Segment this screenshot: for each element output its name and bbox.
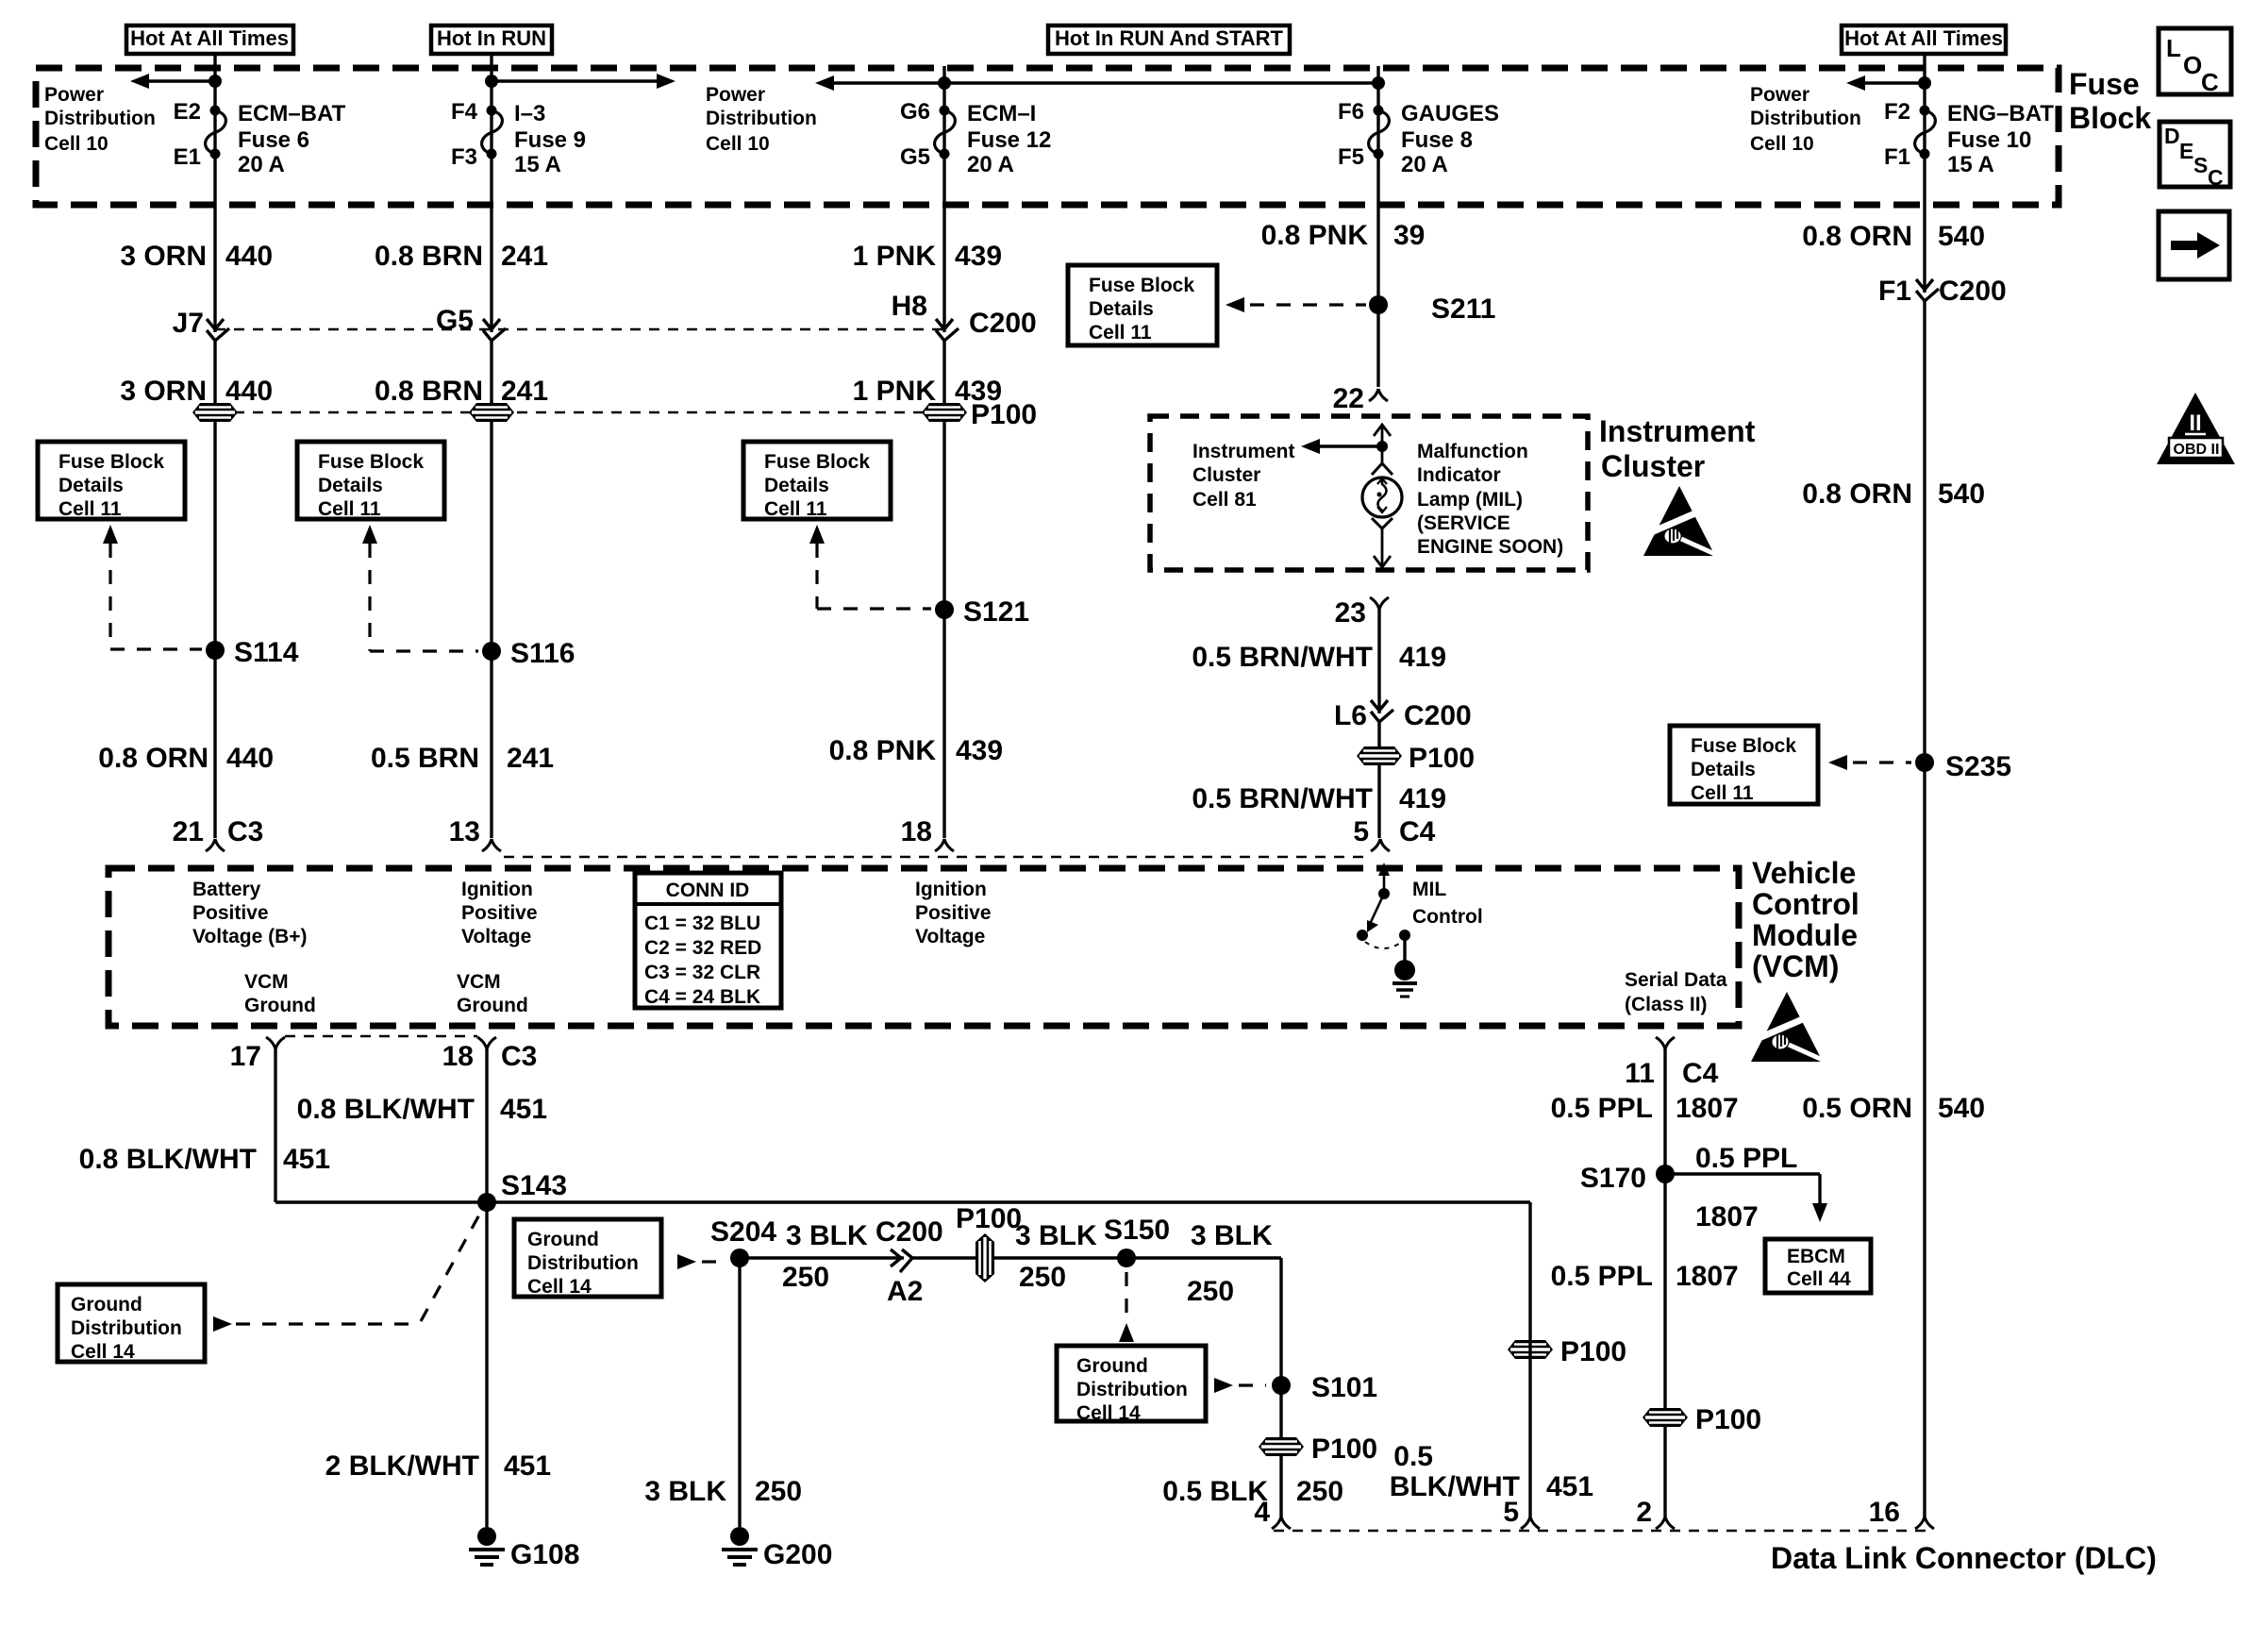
svg-text:C4 = 24 BLK: C4 = 24 BLK [644,986,760,1008]
svg-text:Positive: Positive [915,902,992,924]
svg-text:Details: Details [318,475,383,496]
svg-text:G200: G200 [763,1539,832,1570]
svg-text:540: 540 [1938,478,1985,510]
svg-text:3 ORN: 3 ORN [120,241,207,272]
Fuse Block Details Cell 11 box (mid-left) [297,442,444,520]
svg-text:Module: Module [1752,918,1858,952]
svg-text:VCM: VCM [244,971,289,993]
P100 on serial wire [1643,1404,1761,1435]
svg-text:0.8 BRN: 0.8 BRN [375,376,483,407]
DLC pin 4 [1254,1497,1291,1529]
dashed arrow box to S101 [1214,1378,1233,1393]
DLC pin 16 [1869,1497,1934,1529]
svg-text:0.8 PNK: 0.8 PNK [829,735,937,766]
Ground Distribution Cell 14 box right [1057,1346,1206,1424]
splice S121 [935,596,1029,628]
svg-text:O: O [2183,51,2202,79]
arrow to Power Distribution (left) [149,79,215,82]
Ignition Positive Voltage text (left) [461,879,538,947]
svg-text:Malfunction: Malfunction [1417,441,1528,462]
svg-text:VCM: VCM [457,971,501,993]
pin 17 [230,1037,285,1072]
Ground Distribution Cell 14 box mid [514,1219,661,1298]
svg-text:Distribution: Distribution [71,1317,182,1339]
svg-text:1 PNK: 1 PNK [853,376,937,407]
svg-text:540: 540 [1938,1093,1985,1124]
wire W4 lower (23 to C4) [1377,610,1380,838]
fuse GAUGES Fuse 8 20A [1338,99,1499,177]
P100 on W3 [922,403,967,422]
svg-text:Fuse: Fuse [2069,67,2140,101]
fuse ECM-I Fuse 12 20A [900,99,1051,177]
MIL Control switch [1357,863,1417,997]
svg-text:ENGINE SOON): ENGINE SOON) [1417,536,1563,558]
svg-text:15 A: 15 A [1947,152,1994,177]
svg-text:Cell 10: Cell 10 [1750,133,1814,155]
svg-text:Distribution: Distribution [1076,1379,1188,1400]
splice S235 [1915,751,2011,782]
MIL lamp circle [1362,478,1402,517]
wire label 0.8 BLK/WHT 451 (pin17) [79,1144,330,1175]
svg-text:Positive: Positive [192,902,269,924]
svg-text:ENG–BAT: ENG–BAT [1947,101,2054,126]
wire label 0.8 PNK 39 (W4) [1261,220,1426,251]
Ground Distribution Cell 14 box left [58,1284,205,1363]
svg-text:S: S [2193,153,2208,177]
svg-text:D: D [2164,124,2180,148]
CONN ID box [635,873,781,1008]
wire S143 run down to DLC pin 5 [1528,1202,1531,1517]
wire label 0.8 BRN 241 (row1 W2) [375,241,548,272]
wire W2 I-3 vertical [490,54,492,838]
svg-text:250: 250 [1019,1262,1066,1293]
svg-text:Fuse 10: Fuse 10 [1947,127,2031,153]
svg-text:Fuse Block: Fuse Block [318,451,424,473]
svg-text:451: 451 [1546,1471,1593,1502]
svg-text:Voltage: Voltage [461,926,531,947]
splice S143 [477,1170,567,1212]
svg-text:18: 18 [901,816,932,847]
wire label 0.5 PPL 1807 (branch) [1695,1143,1797,1232]
svg-text:250: 250 [1187,1276,1234,1307]
P100 on W2 [469,403,514,422]
svg-text:Distribution: Distribution [706,108,817,129]
svg-text:(Class II): (Class II) [1625,994,1708,1015]
Fuse Block Details Cell 11 box (mid) [743,442,891,520]
DLC pin 2 [1636,1497,1675,1529]
pin 11 C4 [1625,1037,1718,1089]
C200 connector dashed line [215,328,944,330]
fuse ENG-BAT Fuse 10 15A [1884,99,2054,177]
arrow from W2 to Power Distribution (middle) [492,79,660,82]
svg-text:Details: Details [58,475,124,496]
svg-text:G108: G108 [510,1539,579,1570]
svg-text:Voltage: Voltage [915,926,985,947]
splice S170 [1580,1163,1675,1194]
svg-text:1807: 1807 [1695,1201,1759,1232]
wire label 0.5 PPL 1807 (lower) [1551,1261,1739,1292]
svg-text:Hot In RUN And START: Hot In RUN And START [1055,26,1284,50]
svg-text:C200: C200 [969,308,1037,339]
wire label 3 ORN 440 (row1 W1) [120,241,273,272]
svg-text:Indicator: Indicator [1417,464,1501,486]
wire label 0.5 BLK/WHT 451 (pin5) [1390,1441,1593,1502]
splice S116 [482,638,575,669]
svg-text:419: 419 [1399,783,1446,814]
header box Hot At All Times (right) [1842,25,2006,54]
svg-text:Ground: Ground [244,995,316,1016]
chevron below lamp [1372,518,1392,528]
svg-text:Battery: Battery [192,879,261,900]
svg-text:C2 = 32 RED: C2 = 32 RED [644,937,761,959]
svg-text:451: 451 [500,1094,547,1125]
svg-text:Details: Details [764,475,829,496]
svg-text:E: E [2179,139,2193,163]
wire label 0.5 BLK 250 [1162,1476,1343,1507]
svg-text:C200: C200 [1404,700,1472,731]
Power Distribution Cell 10 text (left) [44,84,156,155]
svg-text:S170: S170 [1580,1163,1646,1194]
svg-text:S114: S114 [234,637,299,668]
svg-text:Hot In RUN: Hot In RUN [437,26,546,50]
svg-text:Cell 10: Cell 10 [44,133,108,155]
svg-text:440: 440 [225,376,273,407]
splice S204 [710,1216,776,1267]
svg-text:F2: F2 [1884,99,1910,125]
svg-text:S101: S101 [1311,1372,1377,1403]
svg-text:440: 440 [226,743,274,774]
wire label 1 PNK 439 (row1 W3) [853,241,1002,272]
splice S150 [1104,1215,1170,1267]
svg-text:1 PNK: 1 PNK [853,241,937,272]
svg-text:1807: 1807 [1676,1093,1739,1124]
svg-text:Power: Power [1750,84,1809,106]
svg-text:Ground: Ground [457,995,528,1016]
wire label 1 PNK 439 (row2 W3) [853,376,1002,407]
wire label 0.8 BRN 241 (row2 W2) [375,376,548,407]
svg-text:2 BLK/WHT: 2 BLK/WHT [325,1450,479,1482]
svg-text:BLK/WHT: BLK/WHT [1390,1471,1520,1502]
svg-text:16: 16 [1869,1497,1900,1528]
svg-text:G5: G5 [900,144,930,170]
svg-text:P100: P100 [971,399,1037,430]
ESD symbol (VCM) [1751,992,1823,1062]
wire label 0.5 PPL 1807 (upper) [1551,1093,1739,1124]
wire label 3 ORN 440 (row2 W1) [120,376,273,407]
svg-text:250: 250 [1296,1476,1343,1507]
Fuse Block section label [2069,67,2151,135]
chevron above lamp [1372,463,1392,475]
svg-text:S211: S211 [1431,293,1495,325]
svg-text:Cell 14: Cell 14 [527,1276,592,1298]
arrow from W5 to Power Distribution (right) [1865,81,1925,84]
svg-text:Cluster: Cluster [1192,464,1260,486]
pin 18 C3 [442,1037,538,1072]
svg-text:Control: Control [1412,906,1483,928]
P100 pass-through dashed line [215,411,944,413]
splice S114 [206,637,299,668]
svg-text:L6: L6 [1334,700,1367,731]
arrow to Instrument text [1319,444,1382,447]
svg-text:440: 440 [225,241,273,272]
P100 on W4 [1357,743,1475,774]
svg-text:17: 17 [230,1041,261,1072]
svg-text:540: 540 [1938,221,1985,252]
connector F1 C200 (W5) [1878,276,2007,307]
svg-text:0.8 ORN: 0.8 ORN [98,743,208,774]
svg-text:Cell 14: Cell 14 [71,1341,135,1363]
wire from pin 18 to G108 [485,1049,488,1527]
svg-text:A2: A2 [887,1276,923,1307]
svg-text:Ignition: Ignition [461,879,533,900]
wire label 0.5 ORN 540 (W5 low) [1802,1093,1985,1124]
svg-text:EBCM: EBCM [1787,1246,1845,1267]
wire label 0.5 BRN/WHT 419 (lower) [1192,783,1446,814]
svg-text:Fuse Block: Fuse Block [1089,275,1194,296]
svg-text:F1: F1 [1884,144,1910,170]
dashed link box2 to S116 [362,525,377,544]
svg-text:Cell 44: Cell 44 [1787,1268,1851,1290]
svg-text:E2: E2 [174,99,201,125]
Fuse Block Details Cell 11 box (left) [38,442,185,520]
Ignition Positive Voltage text (right) [915,879,992,947]
wire label 3 BLK 250 (G200) [644,1476,802,1507]
DLC dashed connector line [1274,1530,1932,1532]
svg-text:Fuse 6: Fuse 6 [238,127,309,153]
dashed link box1 to S114 [103,525,118,544]
wire label 0.5 BRN 241 (W2) [371,743,554,774]
svg-text:0.5 ORN: 0.5 ORN [1802,1093,1912,1124]
svg-text:G5: G5 [436,305,474,336]
svg-text:439: 439 [955,241,1002,272]
svg-text:Ground: Ground [71,1294,142,1316]
svg-text:4: 4 [1254,1497,1270,1528]
legend OBD II triangle [2157,393,2235,464]
header box Hot At All Times (left) [126,25,293,54]
svg-text:39: 39 [1393,220,1425,251]
header box Hot In RUN [431,25,552,54]
wire to bottom of IC box [1381,528,1384,567]
svg-text:Cluster: Cluster [1601,449,1705,483]
svg-text:5: 5 [1353,816,1369,847]
svg-text:F3: F3 [451,144,477,170]
svg-text:Fuse Block: Fuse Block [58,451,164,473]
wire label 3 BLK 250 (seg3) [1187,1220,1273,1307]
svg-text:Hot At All Times: Hot At All Times [130,26,289,50]
MIL lamp wire (inside IC) [1381,425,1384,462]
arrow from W4 across W3 (points left) [834,81,1378,84]
svg-text:0.5 BRN/WHT: 0.5 BRN/WHT [1192,642,1373,673]
svg-text:CONN ID: CONN ID [666,880,750,901]
wire W3 ECM-I vertical [942,66,945,838]
svg-text:F5: F5 [1338,144,1364,170]
connector G5 C200 [436,305,506,341]
svg-text:0.8 ORN: 0.8 ORN [1802,478,1912,510]
svg-text:241: 241 [501,376,548,407]
svg-text:Cell 11: Cell 11 [318,498,381,520]
splice S211 [1369,293,1495,325]
Power Distribution Cell 10 text (right) [1750,84,1861,155]
svg-text:ECM–BAT: ECM–BAT [238,101,346,126]
ground row wire [740,1256,1281,1259]
svg-text:439: 439 [956,735,1003,766]
pin 21 C3 [173,816,264,851]
svg-text:3 BLK: 3 BLK [644,1476,726,1507]
svg-text:Data Link Connector (DLC): Data Link Connector (DLC) [1771,1541,2157,1575]
C3 pin dashed link [504,856,1368,858]
svg-text:Cell 11: Cell 11 [1089,322,1152,344]
svg-text:Instrument: Instrument [1599,414,1756,448]
svg-text:3 ORN: 3 ORN [120,376,207,407]
svg-text:3 BLK: 3 BLK [1191,1220,1273,1251]
wire label 0.8 ORN 440 (W1) [98,743,274,774]
svg-text:Power: Power [706,84,765,106]
svg-text:P100: P100 [956,1203,1022,1234]
wire label 0.8 PNK 439 (W3) [829,735,1003,766]
svg-text:F6: F6 [1338,99,1364,125]
EBCM Cell 44 box [1765,1239,1871,1293]
svg-text:C4: C4 [1682,1058,1719,1089]
svg-text:18: 18 [442,1041,474,1072]
svg-text:250: 250 [782,1262,829,1293]
svg-text:MIL: MIL [1412,879,1446,900]
svg-text:Lamp (MIL): Lamp (MIL) [1417,489,1523,511]
svg-text:C: C [2208,165,2224,190]
pin 5 C4 [1353,816,1435,851]
svg-text:451: 451 [283,1144,330,1175]
svg-text:Cell 10: Cell 10 [706,133,770,155]
serial data wire [1663,1049,1666,1517]
Vehicle Control Module dashed box [108,868,1739,1026]
connector L6 C200 [1334,700,1472,731]
svg-text:241: 241 [507,743,554,774]
svg-text:Distribution: Distribution [527,1252,639,1274]
svg-text:P100: P100 [1409,743,1475,774]
fuse block dashed outline [36,68,2059,205]
svg-text:11: 11 [1625,1058,1655,1089]
svg-text:ECM–I: ECM–I [967,101,1036,126]
svg-text:Vehicle: Vehicle [1752,856,1856,890]
svg-text:OBD II: OBD II [2174,442,2220,458]
svg-text:(VCM): (VCM) [1752,949,1839,983]
pin 18 [901,816,954,851]
svg-text:250: 250 [755,1476,802,1507]
ESD symbol (instrument cluster) [1643,486,1715,556]
svg-text:Ignition: Ignition [915,879,987,900]
svg-text:Fuse 12: Fuse 12 [967,127,1051,153]
svg-text:1807: 1807 [1676,1261,1739,1292]
svg-text:I–3: I–3 [514,101,545,126]
svg-text:F1: F1 [1878,276,1911,307]
svg-text:Cell 11: Cell 11 [764,498,827,520]
svg-text:3 BLK: 3 BLK [1015,1220,1097,1251]
wire W5 ENG-BAT vertical [1923,54,1926,1517]
Instrument Cluster Cell 81 text [1192,441,1295,511]
svg-text:P100: P100 [1311,1433,1377,1465]
svg-text:P100: P100 [1560,1336,1626,1367]
connector J7 C200 [173,308,229,341]
svg-text:S143: S143 [501,1170,567,1201]
svg-text:Control: Control [1752,887,1859,921]
svg-text:Positive: Positive [461,902,538,924]
wire label 0.8 ORN 540 (W5 mid) [1802,478,1985,510]
svg-text:C200: C200 [876,1216,943,1248]
legend DESC box [2160,122,2230,190]
svg-text:2: 2 [1636,1497,1652,1528]
svg-text:Cell 81: Cell 81 [1192,489,1257,511]
wire S150 corner to DLC pin 4 [1279,1258,1282,1517]
svg-text:S121: S121 [963,596,1029,628]
Fuse Block Details box S211 [1068,265,1217,345]
svg-text:21: 21 [173,816,204,847]
Serial Data text [1625,969,1727,1015]
svg-text:5: 5 [1503,1497,1519,1528]
VCM Ground text (left) [244,971,316,1016]
svg-text:E1: E1 [174,144,201,170]
MIL Control text [1412,879,1483,928]
svg-text:S116: S116 [510,638,575,669]
svg-text:20 A: 20 A [967,152,1014,177]
svg-text:Serial Data: Serial Data [1625,969,1727,991]
dashed arrow S235 to box [1828,755,1847,770]
svg-text:0.8 PNK: 0.8 PNK [1261,220,1369,251]
pin 23 [1335,597,1389,629]
svg-text:Fuse 8: Fuse 8 [1401,127,1473,153]
svg-text:0.5: 0.5 [1393,1441,1433,1472]
wire label 0.8 BLK/WHT 451 (pin18) [297,1094,547,1125]
svg-text:20 A: 20 A [1401,152,1448,177]
svg-text:Instrument: Instrument [1192,441,1295,462]
svg-text:G6: G6 [900,99,930,125]
Instrument Cluster dashed box [1150,416,1588,570]
svg-text:C3 = 32 CLR: C3 = 32 CLR [644,962,760,983]
svg-text:C: C [2201,68,2219,96]
svg-text:J7: J7 [173,308,204,339]
svg-text:Details: Details [1089,298,1154,320]
Power Distribution Cell 10 text (middle) [706,84,817,155]
svg-text:0.8 BLK/WHT: 0.8 BLK/WHT [79,1144,257,1175]
svg-text:Cell 11: Cell 11 [1691,782,1754,804]
svg-text:Block: Block [2069,101,2151,135]
svg-text:Fuse 9: Fuse 9 [514,127,586,153]
dashed link S150 to Ground Distribution box [1125,1272,1127,1319]
wire label 0.8 ORN 540 (W5 upper) [1802,221,1985,252]
svg-text:241: 241 [501,241,548,272]
svg-text:0.5 BRN: 0.5 BRN [371,743,479,774]
svg-text:H8: H8 [892,291,927,322]
svg-text:Cell 14: Cell 14 [1076,1402,1141,1424]
svg-text:S235: S235 [1945,751,2011,782]
wire S204 to G200 [738,1258,741,1527]
svg-text:0.5 PPL: 0.5 PPL [1695,1143,1797,1174]
VCM Ground text (right) [457,971,528,1016]
svg-text:Distribution: Distribution [44,108,156,129]
P100 on W1 [192,403,238,422]
P100 on 451 wire [1508,1336,1626,1367]
svg-text:20 A: 20 A [238,152,285,177]
fuse I-3 Fuse 9 15A [451,99,586,177]
svg-text:C4: C4 [1399,816,1436,847]
wire W1 ECM-BAT vertical [213,54,216,838]
svg-text:S150: S150 [1104,1215,1170,1246]
Battery Positive Voltage text [192,879,308,947]
connector C200 A2 (ground row) [876,1216,943,1307]
legend arrow box [2159,211,2229,279]
svg-text:Ground: Ground [1076,1355,1148,1377]
ground G200 [722,1527,758,1565]
svg-text:0.8 ORN: 0.8 ORN [1802,221,1912,252]
wire label 2 BLK/WHT 451 [325,1450,551,1482]
